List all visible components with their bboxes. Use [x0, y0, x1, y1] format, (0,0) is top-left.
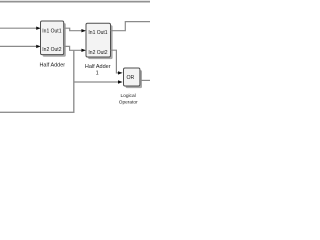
svg-text:Half Adder: Half Adder — [85, 64, 111, 70]
svg-text:In1 Out1: In1 Out1 — [42, 28, 61, 34]
block shadow of Half Adder — [43, 23, 66, 57]
wire Logical Operator output to right edge — [140, 79, 150, 81]
svg-text:In2 Out2: In2 Out2 — [42, 47, 61, 53]
subsystem U2 Half Adder 1 — [86, 23, 111, 57]
wire In1 into Half Adder — [0, 27, 37, 29]
svg-text:In1 Out1: In1 Out1 — [88, 30, 107, 36]
wire Out1 of Half Adder to In1 of Half Adder 1 — [64, 28, 82, 31]
wire branch from Sum node down and out left — [0, 50, 74, 112]
wire Out2 of Half Adder 1 to Logical Operator input 1 — [111, 50, 119, 73]
wire branch to Logical Operator input 2 — [74, 81, 119, 83]
gate U3 OR Logical Operator — [124, 68, 140, 86]
wire In2 into Half Adder — [0, 45, 37, 47]
svg-text:In2 Out2: In2 Out2 — [88, 50, 107, 56]
wire top net — [0, 1, 150, 3]
block shadow of Logical Operator — [126, 70, 142, 88]
svg-text:Logical: Logical — [120, 93, 135, 99]
svg-text:Half Adder: Half Adder — [39, 63, 65, 69]
block shadow of Half Adder 1 — [88, 25, 113, 59]
svg-text:Operator: Operator — [119, 100, 138, 106]
subsystem U1 Half Adder — [41, 21, 64, 55]
wire Out1 of Half Adder 1 to right edge — [111, 22, 151, 31]
svg-text:1: 1 — [96, 70, 99, 76]
svg-text:OR: OR — [127, 75, 135, 81]
wire Out2 of Half Adder to In2 of Half Adder 1 — [64, 46, 82, 50]
